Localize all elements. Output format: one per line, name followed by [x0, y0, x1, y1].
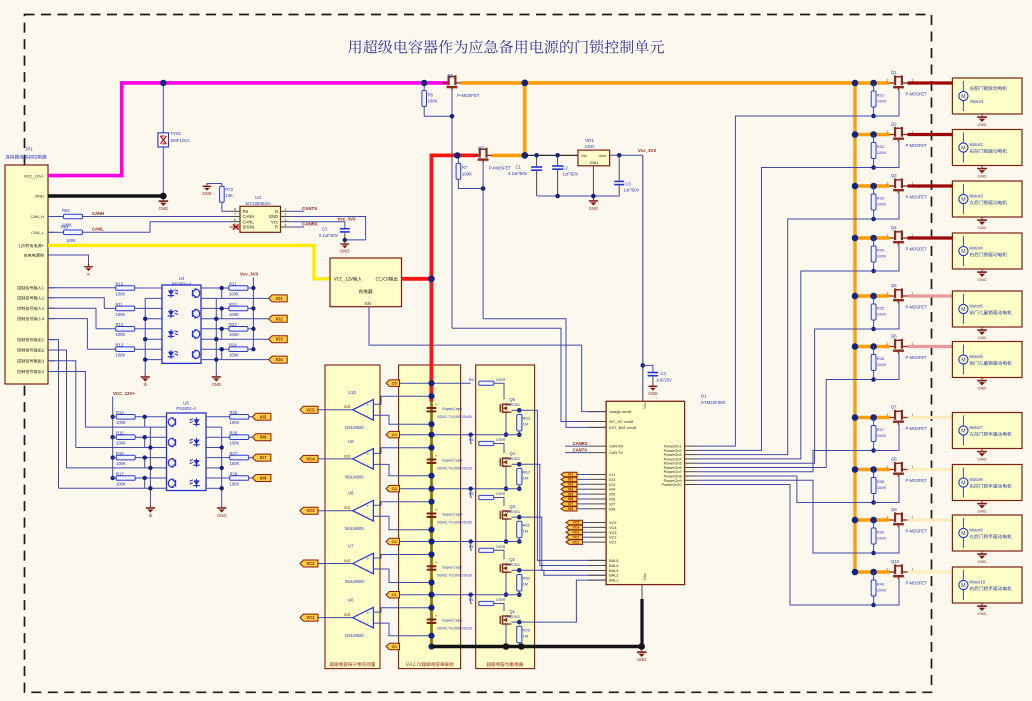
svg-text:IO1: IO1 — [568, 473, 574, 477]
svg-text:GND: GND — [978, 457, 987, 462]
svg-text:Motor7: Motor7 — [969, 425, 983, 430]
svg-text:100R: 100R — [496, 377, 506, 382]
svg-text:+: + — [366, 557, 369, 562]
svg-text:GND: GND — [978, 174, 987, 179]
svg-text:SDN2.7V100F25x30: SDN2.7V100F25x30 — [437, 467, 472, 471]
svg-text:IO8: IO8 — [568, 507, 574, 511]
svg-text:C2: C2 — [392, 539, 398, 544]
svg-text:GND: GND — [212, 382, 221, 387]
svg-text:TVS1: TVS1 — [171, 131, 182, 136]
svg-text:R38: R38 — [877, 479, 885, 484]
svg-text:100K: 100K — [877, 433, 887, 438]
svg-text:U5: U5 — [183, 401, 189, 406]
svg-text:GND: GND — [637, 657, 646, 662]
svg-text:IO1: IO1 — [609, 473, 615, 477]
svg-text:U1: U1 — [701, 393, 707, 398]
svg-text:out: out — [344, 612, 351, 617]
svg-text:R6: R6 — [428, 92, 434, 97]
svg-text:M: M — [961, 583, 965, 589]
svg-text:Motor9: Motor9 — [969, 528, 983, 533]
svg-text:BAL1: BAL1 — [609, 579, 618, 583]
svg-text:R7: R7 — [462, 165, 468, 170]
svg-text:2: 2 — [472, 154, 474, 158]
svg-text:100K: 100K — [877, 253, 887, 258]
svg-text:R39: R39 — [877, 529, 885, 534]
svg-text:2: 2 — [887, 465, 889, 469]
svg-text:M: M — [961, 145, 965, 151]
svg-text:R10: R10 — [116, 281, 124, 286]
svg-text:Vcc_3V3: Vcc_3V3 — [638, 148, 657, 153]
svg-text:charge on/off: charge on/off — [609, 410, 632, 414]
svg-text:IO1: IO1 — [276, 296, 283, 301]
svg-text:GND: GND — [978, 386, 987, 391]
svg-text:VR1: VR1 — [585, 138, 594, 143]
svg-text:IO2: IO2 — [609, 478, 615, 482]
svg-text:R36: R36 — [877, 356, 885, 361]
svg-text:100K: 100K — [877, 485, 887, 490]
svg-text:IO5: IO5 — [609, 493, 615, 497]
svg-text:100K: 100K — [877, 311, 887, 316]
svg-text:100K: 100K — [116, 481, 126, 486]
svg-text:100K: 100K — [428, 99, 438, 104]
svg-text:CAN_L: CAN_L — [31, 230, 45, 235]
svg-text:0.1uF/50V: 0.1uF/50V — [508, 171, 528, 176]
svg-text:SIT1050ESA: SIT1050ESA — [245, 201, 270, 206]
svg-text:100K: 100K — [230, 420, 240, 425]
svg-text:R40: R40 — [877, 581, 885, 586]
svg-text:GND: GND — [978, 335, 987, 340]
svg-text:P-MOSFET: P-MOSFET — [906, 305, 928, 310]
svg-text:NSLM600: NSLM600 — [345, 633, 364, 638]
svg-text:100K: 100K — [230, 441, 240, 446]
svg-text:R26: R26 — [230, 431, 238, 436]
svg-text:VC3: VC3 — [572, 531, 579, 535]
svg-text:100R: 100R — [496, 544, 506, 549]
svg-text:C2: C2 — [563, 165, 569, 170]
svg-text:Motor5: Motor5 — [969, 304, 983, 309]
svg-text:100K: 100K — [229, 312, 239, 317]
svg-text:EXT_BAT on/off: EXT_BAT on/off — [609, 426, 637, 430]
svg-text:JP1: JP1 — [25, 147, 33, 152]
svg-text:Vss: Vss — [642, 573, 647, 580]
svg-text:IO5: IO5 — [260, 414, 267, 419]
svg-text:P-MOSFET: P-MOSFET — [906, 247, 928, 252]
svg-text:P-MOSFET: P-MOSFET — [906, 426, 928, 431]
svg-text:R15: R15 — [116, 431, 124, 436]
svg-text:R13: R13 — [116, 343, 124, 348]
svg-text:Motor4: Motor4 — [969, 246, 983, 251]
svg-text:100K: 100K — [116, 291, 126, 296]
svg-text:R21: R21 — [229, 281, 237, 286]
svg-text:PS2801-4: PS2801-4 — [176, 406, 196, 411]
svg-text:C5: C5 — [392, 381, 398, 386]
svg-text:C4: C4 — [392, 432, 398, 437]
svg-text:SuperCap4: SuperCap4 — [442, 458, 463, 463]
svg-text:out: out — [344, 558, 351, 563]
svg-text:2: 2 — [887, 413, 889, 417]
svg-text:NSLM600: NSLM600 — [345, 579, 364, 584]
svg-text:IO7: IO7 — [260, 455, 267, 460]
svg-text:2: 2 — [887, 181, 889, 185]
svg-text:6: 6 — [234, 218, 236, 222]
svg-text:100K: 100K — [116, 353, 126, 358]
svg-text:U8: U8 — [348, 491, 354, 496]
svg-text:Q4: Q4 — [891, 225, 897, 230]
svg-text:R31: R31 — [877, 92, 885, 97]
svg-text:1M: 1M — [523, 529, 529, 534]
svg-text:R59: R59 — [523, 628, 531, 633]
svg-text:2: 2 — [887, 233, 889, 237]
svg-text:100K: 100K — [116, 461, 126, 466]
svg-text:R61: R61 — [523, 523, 531, 528]
svg-text:CAN TX: CAN TX — [609, 451, 623, 455]
svg-text:+: + — [366, 404, 369, 409]
svg-text:C0: C0 — [392, 644, 398, 649]
svg-text:IO6: IO6 — [568, 497, 574, 501]
svg-text:M: M — [961, 197, 965, 203]
svg-text:Q8: Q8 — [891, 457, 897, 462]
svg-text:Vcc_3V3: Vcc_3V3 — [240, 271, 259, 276]
svg-text:Q2: Q2 — [891, 122, 897, 127]
svg-text:C1: C1 — [392, 592, 398, 597]
svg-text:P-MOSFET: P-MOSFET — [906, 529, 928, 534]
svg-text:BAL5: BAL5 — [609, 559, 618, 563]
svg-text:M: M — [961, 249, 965, 255]
svg-text:1M: 1M — [523, 422, 529, 427]
svg-text:R2: R2 — [469, 544, 475, 549]
svg-text:CANTX: CANTX — [302, 206, 317, 211]
svg-text:VC2: VC2 — [306, 561, 315, 566]
svg-text:VC2: VC2 — [572, 535, 579, 539]
svg-text:R27: R27 — [230, 451, 238, 456]
svg-text:R5: R5 — [469, 377, 475, 382]
svg-text:R24: R24 — [229, 343, 237, 348]
svg-text:2: 2 — [887, 291, 889, 295]
svg-text:2: 2 — [442, 81, 444, 85]
svg-text:SDN2.7V100F25x30: SDN2.7V100F25x30 — [437, 627, 472, 631]
svg-text:C4: C4 — [661, 371, 667, 376]
svg-text:U10: U10 — [348, 390, 357, 395]
svg-text:Q9: Q9 — [891, 507, 897, 512]
svg-text:R11: R11 — [116, 302, 124, 307]
svg-text:R72: R72 — [225, 187, 233, 192]
svg-text:+: + — [435, 560, 438, 565]
svg-text:R3: R3 — [469, 491, 475, 496]
svg-text:IO5: IO5 — [568, 492, 574, 496]
svg-text:IO8: IO8 — [260, 476, 267, 481]
svg-text:CANH: CANH — [92, 211, 104, 216]
svg-text:CANRX: CANRX — [573, 441, 588, 446]
svg-text:8: 8 — [234, 208, 236, 212]
svg-text:IO2: IO2 — [276, 316, 283, 321]
svg-text:GND: GND — [35, 194, 44, 199]
svg-text:100K: 100K — [116, 332, 126, 337]
svg-text:100K: 100K — [116, 420, 126, 425]
svg-text:R63: R63 — [61, 224, 69, 229]
svg-text:Motor6: Motor6 — [969, 354, 983, 359]
svg-text:Motor10: Motor10 — [969, 580, 985, 585]
svg-text:Q7: Q7 — [478, 146, 484, 151]
svg-text:Q7: Q7 — [891, 405, 897, 410]
svg-text:R62: R62 — [523, 470, 531, 475]
svg-text:VC4: VC4 — [306, 456, 315, 461]
svg-text:CANRX: CANRX — [302, 222, 318, 227]
svg-text:R: R — [275, 225, 278, 230]
svg-text:100K: 100K — [66, 238, 76, 243]
svg-text:M: M — [961, 94, 965, 100]
svg-text:VC2: VC2 — [609, 536, 616, 540]
svg-text:R25: R25 — [230, 410, 238, 415]
svg-text:IO8: IO8 — [609, 507, 615, 511]
svg-text:+: + — [366, 505, 369, 510]
svg-text:100K: 100K — [230, 481, 240, 486]
svg-text:1M: 1M — [523, 582, 529, 587]
svg-text:R14: R14 — [116, 410, 124, 415]
svg-text:Q3: Q3 — [891, 173, 897, 178]
svg-text:SuperCap1: SuperCap1 — [442, 618, 463, 623]
svg-text:U4: U4 — [179, 276, 185, 281]
svg-text:HM2301: HM2301 — [505, 614, 521, 619]
svg-text:100K: 100K — [116, 312, 126, 317]
svg-text:Motor8: Motor8 — [969, 477, 983, 482]
svg-text:EN: EN — [365, 301, 371, 306]
svg-text:100K: 100K — [877, 362, 887, 367]
svg-text:VC1: VC1 — [572, 540, 579, 544]
svg-text:C1: C1 — [516, 164, 522, 169]
svg-text:M: M — [961, 428, 965, 434]
svg-text:CANTX: CANTX — [573, 447, 588, 452]
svg-text:R4: R4 — [469, 437, 475, 442]
svg-text:INT_SC on/off: INT_SC on/off — [609, 420, 634, 424]
svg-text:Q6: Q6 — [448, 73, 454, 78]
svg-text:IO3: IO3 — [609, 483, 615, 487]
svg-text:SDN2.7V100F25x30: SDN2.7V100F25x30 — [437, 415, 472, 419]
svg-text:Vcc: Vcc — [271, 219, 278, 224]
svg-text:Vcc_3V3: Vcc_3V3 — [337, 217, 356, 222]
svg-text:SHDN: SHDN — [243, 225, 255, 230]
svg-text:Motor3: Motor3 — [969, 194, 983, 199]
svg-text:VC1: VC1 — [306, 615, 315, 620]
svg-text:HM2301: HM2301 — [505, 509, 521, 514]
svg-text:100K: 100K — [877, 150, 887, 155]
svg-text:IO4: IO4 — [568, 487, 574, 491]
svg-text:SMF12CA: SMF12CA — [171, 138, 191, 143]
svg-text:+: + — [366, 453, 369, 458]
svg-text:VCC_12V+: VCC_12V+ — [24, 173, 45, 178]
svg-text:Q6: Q6 — [891, 334, 897, 339]
svg-text:P-MOSFET: P-MOSFET — [457, 93, 480, 98]
svg-text:GND: GND — [340, 249, 349, 254]
svg-text:100K: 100K — [877, 587, 887, 592]
svg-text:2: 2 — [887, 567, 889, 571]
svg-text:SuperCap5: SuperCap5 — [442, 406, 463, 411]
svg-text:P-MOSFET: P-MOSFET — [906, 92, 928, 97]
svg-text:VC4: VC4 — [572, 526, 579, 530]
svg-text:HM2301: HM2301 — [505, 562, 521, 567]
svg-text:GND: GND — [978, 277, 987, 282]
svg-text:IO7: IO7 — [609, 502, 615, 506]
svg-text:Vcc: Vcc — [642, 402, 647, 409]
svg-text:1uF/50V: 1uF/50V — [624, 188, 640, 193]
svg-text:R33: R33 — [877, 195, 885, 200]
svg-text:R22: R22 — [229, 302, 237, 307]
svg-text:2: 2 — [887, 515, 889, 519]
svg-text:NSLM600: NSLM600 — [345, 526, 364, 531]
svg-text:R63: R63 — [523, 416, 531, 421]
svg-text:VC3: VC3 — [306, 508, 315, 513]
svg-text:CANL: CANL — [243, 219, 255, 224]
svg-text:1uF/25V: 1uF/25V — [656, 377, 672, 382]
svg-text:GND: GND — [589, 206, 598, 211]
svg-text:GND: GND — [978, 225, 987, 230]
svg-text:GND: GND — [202, 191, 211, 196]
svg-text:2: 2 — [285, 213, 287, 217]
svg-text:1uF/50V: 1uF/50V — [563, 172, 579, 177]
svg-text:IO7: IO7 — [568, 502, 574, 506]
svg-text:C3: C3 — [625, 182, 631, 187]
svg-text:R1: R1 — [469, 597, 475, 602]
svg-text:GND: GND — [589, 160, 598, 165]
svg-text:NSLM600: NSLM600 — [345, 474, 364, 479]
svg-text:VCC_12V+: VCC_12V+ — [113, 391, 136, 396]
svg-text:R28: R28 — [230, 471, 238, 476]
svg-text:U7: U7 — [348, 544, 354, 549]
svg-text:CANL: CANL — [92, 227, 104, 232]
svg-text:GND: GND — [978, 122, 987, 127]
svg-text:100K: 100K — [877, 201, 887, 206]
svg-text:R12: R12 — [116, 322, 124, 327]
svg-text:M: M — [961, 531, 965, 537]
svg-text:VC5: VC5 — [306, 407, 315, 412]
svg-text:IO6: IO6 — [609, 498, 615, 502]
svg-text:1: 1 — [285, 208, 287, 212]
svg-text:GND: GND — [648, 391, 657, 396]
svg-text:R60: R60 — [523, 576, 531, 581]
svg-text:R17: R17 — [116, 471, 124, 476]
svg-text:+: + — [435, 402, 438, 407]
svg-text:BAL2: BAL2 — [609, 574, 618, 578]
svg-text:VC3: VC3 — [609, 531, 616, 535]
svg-text:VC5: VC5 — [572, 521, 579, 525]
svg-text:U3: U3 — [255, 195, 261, 200]
svg-text:C3: C3 — [322, 227, 328, 232]
svg-text:out: out — [344, 404, 351, 409]
svg-text:CAN_H: CAN_H — [30, 214, 44, 219]
svg-text:R35: R35 — [877, 305, 885, 310]
svg-text:M: M — [961, 480, 965, 486]
svg-text:GND: GND — [978, 611, 987, 616]
svg-text:100R: 100R — [496, 491, 506, 496]
svg-text:100K: 100K — [877, 535, 887, 540]
svg-text:100R: 100R — [496, 437, 506, 442]
svg-text:P-MOSFET: P-MOSFET — [906, 195, 928, 200]
svg-text:IO4: IO4 — [609, 488, 615, 492]
svg-text:Motor2: Motor2 — [969, 142, 983, 147]
svg-text:R16: R16 — [116, 451, 124, 456]
svg-text:P-MOSFET: P-MOSFET — [906, 355, 928, 360]
svg-text:P-MOSFET: P-MOSFET — [906, 143, 928, 148]
svg-text:M: M — [961, 357, 965, 363]
svg-text:100R: 100R — [496, 597, 506, 602]
svg-text:GND: GND — [978, 509, 987, 514]
svg-text:SuperCap3: SuperCap3 — [442, 512, 463, 517]
svg-text:C3: C3 — [392, 486, 398, 491]
svg-text:SDN2.7V100F25x30: SDN2.7V100F25x30 — [437, 521, 472, 525]
svg-text:M: M — [961, 307, 965, 313]
svg-text:U6: U6 — [348, 598, 354, 603]
svg-text:R64: R64 — [62, 208, 70, 213]
svg-text:2: 2 — [887, 130, 889, 134]
svg-text:LDO: LDO — [585, 144, 595, 149]
svg-text:1M: 1M — [523, 634, 529, 639]
svg-text:VC1: VC1 — [609, 541, 616, 545]
svg-text:U9: U9 — [348, 439, 354, 444]
svg-text:Q5: Q5 — [891, 283, 897, 288]
svg-text:VC5: VC5 — [609, 521, 616, 525]
svg-text:+: + — [435, 507, 438, 512]
svg-text:HM2301: HM2301 — [505, 456, 521, 461]
svg-text:Q10: Q10 — [891, 559, 900, 564]
svg-text:Vin: Vin — [581, 153, 587, 158]
svg-text:+: + — [435, 613, 438, 618]
svg-text:2: 2 — [887, 342, 889, 346]
svg-text:SDN2.7V100F25x30: SDN2.7V100F25x30 — [437, 574, 472, 578]
svg-text:100K: 100K — [229, 332, 239, 337]
svg-text:out: out — [344, 505, 351, 510]
svg-text:NSLM600: NSLM600 — [345, 425, 364, 430]
svg-text:3: 3 — [285, 218, 287, 222]
svg-text:BAL3: BAL3 — [609, 569, 618, 573]
svg-text:100K: 100K — [116, 441, 126, 446]
svg-text:7: 7 — [234, 213, 236, 217]
svg-text:R23: R23 — [229, 322, 237, 327]
svg-text:IO4: IO4 — [276, 357, 283, 362]
svg-text:IO2: IO2 — [568, 478, 574, 482]
svg-text:R37: R37 — [877, 427, 885, 432]
svg-text:CAN RX: CAN RX — [609, 445, 624, 449]
svg-text:100K: 100K — [462, 171, 472, 176]
svg-text:SuperCap2: SuperCap2 — [442, 565, 463, 570]
svg-text:GND: GND — [217, 513, 226, 518]
svg-text:Vout: Vout — [598, 153, 607, 158]
svg-text:100K: 100K — [877, 98, 887, 103]
svg-text:2: 2 — [887, 78, 889, 82]
svg-text:STM32F060: STM32F060 — [701, 400, 726, 405]
svg-text:GND: GND — [159, 206, 168, 211]
svg-text:Q1: Q1 — [891, 70, 897, 75]
svg-text:GND: GND — [978, 559, 987, 564]
svg-text:out: out — [344, 453, 351, 458]
svg-text:4: 4 — [285, 223, 287, 227]
svg-text:1M: 1M — [523, 476, 529, 481]
svg-text:PS2801-4: PS2801-4 — [172, 281, 192, 286]
svg-text:0.1uF/50V: 0.1uF/50V — [319, 233, 339, 238]
svg-text:+: + — [366, 611, 369, 616]
svg-text:P-MOSFET: P-MOSFET — [906, 581, 928, 586]
svg-text:HM2301: HM2301 — [505, 402, 521, 407]
svg-text:PowerOn10: PowerOn10 — [662, 483, 682, 487]
svg-text:IO3: IO3 — [276, 337, 283, 342]
svg-text:10K: 10K — [225, 193, 233, 198]
svg-text:VC4: VC4 — [609, 526, 616, 530]
svg-text:+: + — [435, 453, 438, 458]
svg-text:100K: 100K — [230, 461, 240, 466]
svg-text:P-MOSFET: P-MOSFET — [906, 478, 928, 483]
svg-text:100K: 100K — [229, 353, 239, 358]
svg-text:R34: R34 — [877, 247, 885, 252]
svg-text:R32: R32 — [877, 144, 885, 149]
svg-text:Motor1: Motor1 — [970, 99, 984, 104]
